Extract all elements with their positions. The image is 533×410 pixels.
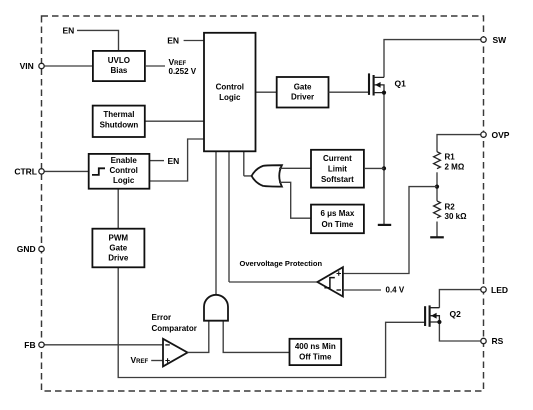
wire R2 to ground [436, 222, 438, 238]
pin VIN [39, 63, 44, 68]
wire Q2 drain to LED [439, 290, 481, 308]
wire Gate Driver to Q1 gate [329, 91, 370, 93]
wire AND input to 400ns Min Off Time [223, 321, 289, 353]
svg-text:Current: Current [323, 154, 352, 163]
wire OR bottom input to 6 us Max On Time [279, 182, 311, 218]
svg-text:Bias: Bias [110, 66, 127, 75]
resistor R1 [434, 152, 441, 169]
block Enable Control Logic [89, 154, 150, 189]
wire EN to Control Logic [184, 40, 204, 42]
svg-text:Control: Control [216, 83, 244, 92]
svg-text:FB: FB [24, 340, 35, 350]
pin GND [39, 246, 44, 251]
svg-text:Shutdown: Shutdown [100, 120, 139, 129]
wire Current Limit Softstart to Q1 source node [364, 167, 384, 169]
block UVLO Bias [93, 51, 145, 81]
svg-text:Softstart: Softstart [321, 175, 354, 184]
svg-text:LED: LED [491, 285, 508, 295]
resistor R2 [434, 201, 441, 218]
svg-text:Q1: Q1 [395, 78, 407, 88]
AND gate [204, 295, 228, 321]
svg-text:VREF: VREF [169, 57, 187, 67]
svg-text:Gate: Gate [109, 244, 127, 253]
svg-text:Control: Control [109, 166, 137, 175]
wire R1 to R2 [436, 172, 438, 201]
wire OR output to Control Logic [244, 151, 252, 176]
pin FB [39, 342, 44, 347]
svg-text:6 μs Max: 6 μs Max [320, 209, 354, 218]
svg-text:EN: EN [63, 26, 75, 36]
block Gate Driver [277, 77, 329, 108]
junction R1/R2 divider [435, 185, 439, 189]
wire OVP comparator - input to 0.4V [343, 289, 381, 291]
transistor Q2 [425, 305, 441, 326]
ground (below R2) [430, 236, 444, 238]
svg-text:VREF: VREF [131, 355, 149, 365]
svg-text:RS: RS [492, 336, 504, 346]
svg-text:Comparator: Comparator [152, 324, 197, 333]
svg-text:0.4 V: 0.4 V [386, 286, 405, 295]
wire Q1 drain to SW [384, 40, 481, 78]
pin LED [481, 287, 486, 292]
svg-text:R2: R2 [445, 203, 456, 212]
wire FB to error comparator - input [44, 344, 163, 346]
svg-text:Logic: Logic [113, 176, 135, 185]
wire EN to UVLO Bias top [77, 30, 119, 51]
transistor Q1 [369, 73, 386, 95]
svg-text:Q2: Q2 [450, 309, 462, 319]
wire Enable Control Logic to EN label [149, 160, 164, 162]
svg-text:2 MΩ: 2 MΩ [445, 163, 465, 172]
block 400 ns Min Off Time [290, 339, 342, 365]
svg-text:PWM: PWM [109, 233, 129, 242]
wire AND output to Control Logic [215, 151, 217, 295]
svg-text:Drive: Drive [108, 253, 129, 262]
wire Control Logic to Gate Driver [256, 91, 278, 93]
svg-text:Gate: Gate [294, 82, 312, 91]
svg-text:GND: GND [17, 244, 36, 254]
pin SW [481, 37, 486, 42]
IC boundary dashed border [42, 16, 484, 391]
svg-text:Limit: Limit [328, 164, 347, 173]
svg-text:30 kΩ: 30 kΩ [445, 212, 468, 221]
OR gate [252, 165, 282, 186]
block Thermal Shutdown [93, 106, 145, 137]
wire VIN to UVLO Bias [44, 65, 93, 67]
wire UVLO Bias to VREF label [145, 65, 165, 67]
svg-text:VIN: VIN [20, 61, 34, 71]
svg-text:Error: Error [152, 313, 172, 322]
wire Q1 source down to ground [383, 93, 385, 225]
svg-text:CTRL: CTRL [14, 167, 37, 177]
wire error comparator output to AND input [188, 321, 209, 353]
wire Enable Control Logic to Control Logic [149, 139, 204, 181]
block 6 us Max On Time [311, 205, 364, 234]
block Current Limit Softstart [311, 150, 364, 188]
wire OVP pin to R1 [437, 135, 481, 152]
svg-text:R1: R1 [445, 153, 456, 162]
wire CTRL to Enable Control Logic [44, 170, 88, 172]
wire Q2 source to RS [439, 322, 481, 341]
svg-text:On Time: On Time [321, 220, 353, 229]
svg-text:EN: EN [167, 36, 179, 46]
ground (below Q1 source) [378, 224, 391, 226]
svg-text:Off Time: Off Time [299, 353, 332, 362]
svg-text:SW: SW [493, 35, 508, 45]
block Control Logic [204, 33, 256, 152]
junction Q1 source / current limit [382, 166, 386, 170]
svg-text:400 ns Min: 400 ns Min [295, 342, 336, 351]
wire PWM rail to Q2 gate [118, 267, 425, 377]
wire VREF to error comparator + input [151, 360, 163, 362]
svg-text:OVP: OVP [492, 130, 510, 140]
wire divider to OVP comparator + input [343, 187, 437, 274]
svg-text:Driver: Driver [291, 93, 314, 102]
pin RS [481, 338, 486, 343]
block PWM Gate Drive [92, 229, 144, 268]
schmitt trigger symbol [92, 168, 105, 175]
svg-text:Enable: Enable [111, 156, 138, 165]
wire Thermal Shutdown to Control Logic [145, 120, 204, 122]
op-amp Error Comparator [163, 339, 188, 367]
wire Enable Control Logic to PWM Gate Drive [117, 189, 119, 229]
svg-text:UVLO: UVLO [108, 56, 130, 65]
pin OVP [481, 132, 486, 137]
svg-text:Thermal: Thermal [103, 110, 134, 119]
pin CTRL [39, 169, 44, 174]
svg-text:Overvoltage Protection: Overvoltage Protection [240, 259, 323, 268]
svg-text:0.252 V: 0.252 V [169, 67, 197, 76]
wire OVP comparator output to Control Logic [229, 151, 317, 282]
svg-text:Logic: Logic [219, 93, 241, 102]
svg-text:EN: EN [168, 156, 180, 166]
comparator Overvoltage Protection [317, 267, 343, 296]
wire OR top input to Current Limit Softstart [279, 167, 311, 169]
